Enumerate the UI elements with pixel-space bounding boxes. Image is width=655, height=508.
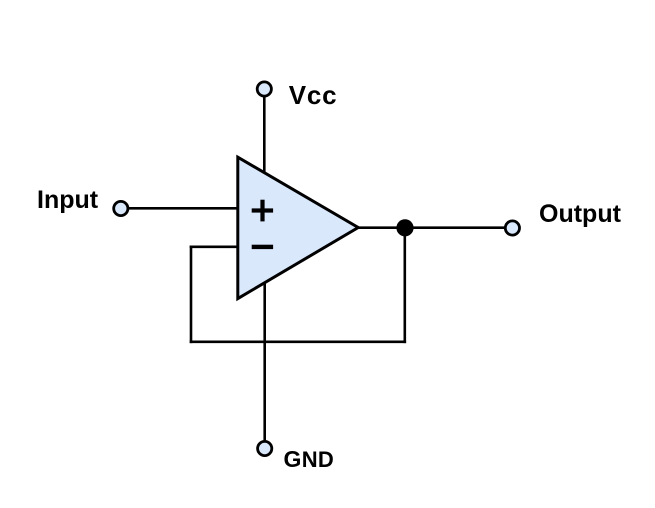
wire output — [356, 226, 505, 229]
svg-text:GND: GND — [284, 446, 335, 472]
wire feedback left vertical — [190, 246, 193, 344]
svg-text:Input: Input — [37, 186, 99, 214]
svg-text:Vcc: Vcc — [289, 80, 338, 110]
wire feedback stub to inverting pin — [190, 246, 242, 249]
wire feedback right vertical to output junction — [403, 228, 406, 343]
wire feedback bottom horizontal — [190, 340, 406, 343]
op-amp U1 body — [238, 157, 358, 298]
svg-text:Output: Output — [539, 200, 622, 228]
op-amp plus (non-inverting) sign — [252, 200, 273, 222]
terminal GND — [258, 441, 272, 455]
terminal Input — [114, 201, 128, 215]
terminal Output — [505, 221, 519, 235]
junction node dot — [396, 219, 413, 236]
wire op-amp bottom to GND — [263, 270, 266, 440]
terminal VCC — [257, 82, 271, 96]
wire VCC to op-amp top — [263, 97, 266, 196]
op-amp minus (inverting) sign — [252, 245, 273, 249]
wire input — [128, 207, 242, 210]
